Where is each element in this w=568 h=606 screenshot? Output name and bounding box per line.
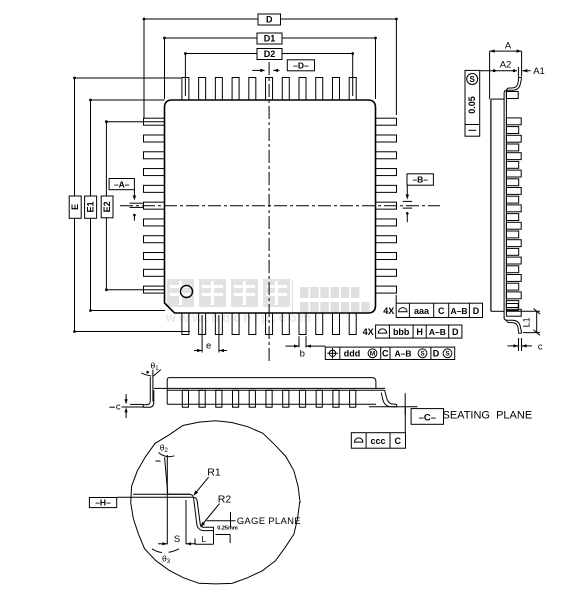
- svg-text:S: S: [445, 351, 450, 358]
- tolerance frame 4X aaa C A-B D: [383, 295, 482, 318]
- svg-text:bbb: bbb: [393, 327, 410, 337]
- svg-text:D1: D1: [264, 34, 276, 44]
- angle theta3: [152, 549, 179, 565]
- bottom pin row: [182, 313, 356, 335]
- top pin row: [182, 78, 356, 101]
- dimension e pin pitch: [194, 315, 227, 353]
- pin 1 index circle: [181, 286, 193, 298]
- vertical centerline: [268, 62, 270, 364]
- svg-text:C: C: [394, 436, 401, 446]
- svg-text:SEATING PLANE: SEATING PLANE: [443, 409, 533, 421]
- svg-text:C: C: [382, 349, 389, 359]
- tolerance frame 0.05 S rotated: [465, 70, 480, 136]
- svg-text:L1: L1: [521, 317, 531, 327]
- datum -A-: [109, 179, 144, 221]
- dimension c at left lead: [110, 394, 144, 418]
- dimension L1: [506, 309, 540, 336]
- dimension E1 body: [85, 99, 165, 312]
- svg-text:–C–: –C–: [419, 412, 436, 423]
- side elevation body: [167, 378, 385, 405]
- svg-text:A–B: A–B: [450, 306, 467, 316]
- svg-text:R2: R2: [218, 493, 232, 505]
- dimension A2: [480, 59, 517, 72]
- svg-text:4X: 4X: [363, 327, 374, 337]
- svg-text:c: c: [116, 402, 121, 413]
- angle theta2: [156, 442, 175, 461]
- svg-text:ddd: ddd: [344, 349, 361, 359]
- svg-text:D: D: [473, 306, 480, 316]
- radius R2 label: [200, 493, 231, 527]
- dimension L foot length: [195, 531, 214, 545]
- svg-text:–D–: –D–: [293, 61, 309, 71]
- svg-text:c: c: [538, 341, 543, 352]
- svg-text:S: S: [174, 534, 180, 545]
- svg-text:E2: E2: [102, 201, 112, 212]
- svg-text:A–B: A–B: [429, 327, 446, 337]
- svg-text:GAGE PLANE: GAGE PLANE: [237, 516, 301, 527]
- dimension D1 body: [163, 33, 377, 99]
- right pin row: [376, 118, 397, 293]
- svg-text:0.25mm: 0.25mm: [217, 526, 238, 532]
- svg-text:S: S: [470, 75, 476, 84]
- svg-text:A–B: A–B: [394, 349, 411, 359]
- gage plane: [207, 512, 301, 543]
- svg-text:D: D: [452, 327, 459, 337]
- svg-text:D2: D2: [264, 49, 276, 59]
- svg-text:e: e: [206, 340, 211, 351]
- svg-text:D: D: [433, 349, 440, 359]
- svg-text:4X: 4X: [383, 306, 394, 316]
- right lead profile: [381, 390, 397, 407]
- dimension E overall: [69, 77, 190, 333]
- svg-text:–H–: –H–: [95, 498, 111, 508]
- seating plane line: [369, 393, 418, 415]
- side view bottom lead: [504, 318, 521, 334]
- dimension E2 pin span: [101, 120, 164, 291]
- watermark logo text: [165, 279, 370, 325]
- svg-text:E1: E1: [86, 201, 96, 212]
- svg-text:C: C: [438, 306, 445, 316]
- horizontal centerline: [120, 205, 440, 207]
- datum -B-: [403, 174, 434, 222]
- left lead profile: [130, 370, 167, 408]
- tolerance frame position ddd M C A-B S D S: [325, 347, 454, 359]
- side view lead stack: [506, 92, 521, 317]
- dimension S: [158, 494, 196, 545]
- datum -D-: [252, 60, 314, 72]
- svg-text:S: S: [420, 351, 425, 358]
- svg-text:A1: A1: [533, 66, 545, 77]
- svg-text:ccc: ccc: [370, 436, 385, 446]
- tolerance frame ccc C: [351, 407, 405, 448]
- side view top lead: [504, 67, 521, 93]
- svg-text:M: M: [370, 351, 375, 358]
- svg-text:b: b: [300, 348, 305, 359]
- package body (top view): [165, 100, 376, 313]
- svg-text:–B–: –B–: [412, 175, 428, 185]
- dimension A: [490, 41, 522, 77]
- dimension c lead thickness: [508, 338, 543, 352]
- svg-text:D: D: [266, 15, 273, 25]
- detail view circle: [131, 421, 300, 584]
- svg-text:E: E: [70, 204, 80, 210]
- svg-text:L: L: [201, 534, 206, 544]
- radius R1 label: [193, 467, 221, 496]
- svg-text:R1: R1: [207, 467, 221, 479]
- left pin row: [144, 118, 165, 293]
- angle theta1: [141, 361, 161, 377]
- side view body: [490, 51, 507, 318]
- svg-text:–A–: –A–: [114, 179, 130, 189]
- datum -H-: [89, 494, 190, 507]
- detail lead profile: [165, 455, 214, 531]
- dimension D overall: [143, 14, 398, 118]
- svg-text:0.05: 0.05: [467, 96, 477, 114]
- tolerance frame 4X bbb H A-B D: [363, 325, 462, 338]
- svg-text:A2: A2: [500, 59, 512, 70]
- dimension D2 pin span: [184, 49, 354, 97]
- svg-text:A: A: [505, 41, 512, 52]
- svg-text:H: H: [416, 327, 423, 337]
- datum -C- seating plane: [411, 409, 532, 425]
- side elevation lead bars: [182, 390, 356, 407]
- dimension A1: [522, 66, 545, 77]
- dimension b pin width: [286, 336, 326, 359]
- svg-text:aaa: aaa: [414, 306, 430, 316]
